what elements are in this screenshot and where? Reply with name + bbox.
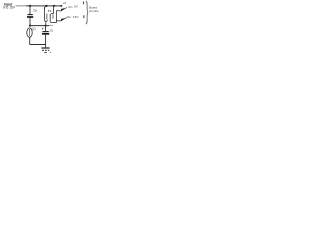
wire branch vertical: [55, 11, 57, 23]
svg-text:a1: a1: [63, 1, 67, 5]
capacitor C2: [42, 32, 49, 34]
transistor Q1: [27, 28, 32, 37]
wire cap2 top: [45, 26, 47, 32]
svg-text:Q1: Q1: [32, 27, 36, 31]
svg-text:T1: T1: [48, 9, 52, 13]
svg-text:0m: 0m: [68, 5, 73, 9]
switch S2: [60, 18, 67, 22]
wire cap2 bottom: [45, 35, 47, 48]
switch S1: [60, 8, 67, 12]
inductor L1 primary winding: [44, 6, 47, 25]
wire cap1 drop: [29, 6, 31, 14]
polarity plus C2: [42, 28, 44, 30]
svg-text:circuits: circuits: [89, 9, 99, 13]
node switch drain: [29, 24, 31, 26]
node input junction: [29, 5, 31, 7]
svg-text:15V: 15V: [73, 15, 79, 19]
wire secondary bottom: [52, 22, 56, 24]
wire output2 stub: [56, 20, 59, 22]
node top rail end: [60, 5, 62, 7]
wire cap1 to node: [29, 18, 31, 26]
wire source drop: [29, 37, 31, 44]
svg-text:ca: ca: [33, 8, 37, 12]
svg-text:9 to 16V: 9 to 16V: [3, 6, 16, 10]
node mark output1: [83, 2, 84, 5]
node mark output2: [83, 15, 84, 18]
wire top rail: [16, 5, 27, 7]
node primary junction: [45, 5, 47, 7]
wire output1 stub: [56, 10, 59, 12]
svg-text:0m: 0m: [67, 15, 72, 19]
brace: [86, 1, 88, 24]
node secondary junction: [53, 5, 55, 7]
capacitor C1: [27, 15, 33, 17]
node cap2 junction: [45, 25, 47, 27]
ground: [41, 48, 50, 53]
svg-text:co: co: [50, 28, 54, 32]
inductor L2 secondary winding: [50, 6, 53, 22]
wire bottom rail: [30, 44, 46, 46]
wire mid rail: [30, 25, 49, 27]
